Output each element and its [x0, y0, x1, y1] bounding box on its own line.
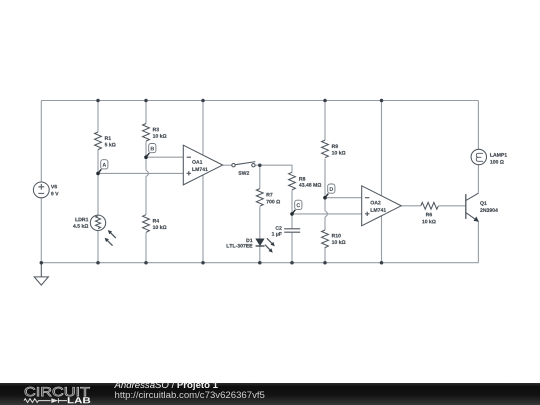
junction bottom rail / R4 — [144, 261, 148, 265]
junction bottom rail / LDR1 — [96, 261, 100, 265]
resistor R3 — [143, 124, 150, 142]
CircuitLab logo — [0, 383, 110, 405]
wire junction down to R7 — [259, 165, 261, 188]
wire R8 to node C — [291, 190, 293, 214]
wire R7 to D1 — [259, 207, 261, 239]
wire node D down to hop — [324, 198, 326, 211]
junction SW2 output / R7 / R8 — [258, 163, 262, 167]
wire LAMP1 top — [477, 101, 479, 150]
wire node C to C2 — [291, 214, 293, 228]
resistor R6 — [421, 202, 439, 209]
label Q1 part — [480, 208, 498, 212]
wire LAMP1 to Q1 collector — [477, 165, 479, 193]
op-amp OA2 — [362, 186, 402, 226]
junction top rail / OA1 supply wire — [201, 99, 205, 103]
wire R1 to node A — [97, 150, 99, 174]
label R8 value — [299, 183, 321, 187]
label LAMP1 name — [490, 153, 507, 157]
wire junction to R8 corner — [260, 165, 292, 172]
wire vertical through OA2 — [381, 101, 383, 263]
label V6 value — [51, 192, 58, 196]
wire LDR1 to bottom rail — [97, 231, 99, 263]
wire bottom rail — [41, 262, 478, 264]
footer bar — [0, 383, 540, 405]
resistor R9 — [322, 140, 329, 158]
wire OA1 output to SW2 — [223, 164, 232, 166]
wire D1 to bottom rail — [259, 246, 261, 263]
wire R3 to node B — [145, 142, 147, 158]
wire R10 to bottom rail — [324, 247, 326, 263]
junction bottom rail / R10 — [323, 261, 327, 265]
node D — [323, 184, 335, 200]
wire R4 to bottom rail — [145, 233, 147, 263]
resistor R8 — [289, 172, 296, 190]
wire node B down to hop — [145, 157, 147, 170]
wire R1 branch top — [97, 101, 99, 133]
junction top rail / R3 — [144, 99, 148, 103]
label OA2 part — [371, 208, 386, 212]
junction bottom rail / OA1 supply wire — [201, 261, 205, 265]
label LDR1 name — [75, 218, 88, 222]
junction top rail / R1 — [96, 99, 100, 103]
label LDR1 value — [73, 224, 88, 228]
label SW2 — [238, 171, 249, 175]
wire SW2 to junction — [255, 164, 260, 166]
node B — [144, 144, 156, 160]
junction bottom rail / C2 — [290, 261, 294, 265]
wire hop over node D wire — [325, 211, 328, 217]
wire hop to R4 — [145, 176, 147, 214]
wire node A to OA1 plus input — [98, 172, 183, 174]
label C2 name — [276, 226, 282, 230]
resistor R4 — [143, 215, 150, 233]
label R9 name — [332, 144, 338, 148]
wire node C to OA2 plus input — [292, 213, 362, 215]
photoresistor LDR1 — [90, 215, 116, 246]
label R10 name — [332, 234, 341, 238]
junction bottom rail / D1 — [258, 261, 262, 265]
LED D1 — [256, 238, 275, 252]
label Q1 name — [480, 201, 487, 206]
node A — [96, 160, 108, 176]
wire node B to OA1 minus input — [146, 156, 183, 158]
wire Q1 emitter to bottom rail — [477, 221, 479, 262]
switch SW2 — [232, 162, 256, 167]
label R3 value — [153, 134, 167, 138]
voltage source V6 — [33, 182, 49, 198]
label R8 name — [299, 177, 305, 181]
wire hop over node A wire — [146, 170, 149, 176]
wire R9 to node D — [324, 159, 326, 198]
label R1 name — [105, 136, 111, 140]
label R4 name — [153, 219, 159, 223]
resistor R10 — [322, 230, 329, 248]
label R6 name — [426, 213, 432, 217]
label V6 name — [51, 185, 57, 189]
op-amp OA1 — [183, 145, 222, 185]
label OA1 part — [192, 168, 207, 172]
wire left V6 branch upper — [40, 101, 42, 183]
wire R3 branch top — [145, 101, 147, 124]
label R7 value — [266, 200, 280, 204]
label R10 value — [332, 240, 346, 244]
label OA2 name — [371, 201, 381, 205]
ground — [34, 263, 48, 285]
wire R9 branch top — [324, 101, 326, 141]
label LAMP1 value — [490, 160, 504, 164]
label R3 name — [153, 128, 159, 132]
label R7 name — [267, 193, 273, 197]
wire hop bottom to R10 — [324, 217, 326, 230]
label D1 part — [227, 244, 253, 248]
lamp LAMP1 — [471, 149, 486, 164]
capacitor C2 — [284, 229, 300, 232]
label C2 value — [272, 232, 282, 237]
label R4 value — [153, 225, 167, 229]
wire R6 to Q1 base — [439, 205, 466, 207]
wire node A to LDR1 — [97, 173, 99, 215]
junction bottom rail / ground — [40, 261, 44, 265]
node C — [290, 200, 302, 216]
label OA1 name — [192, 160, 202, 164]
junction top rail / OA2 supply wire — [380, 99, 384, 103]
wire vertical through OA1 — [202, 101, 204, 263]
label D1 name — [246, 239, 252, 243]
wire OA2 output to R6 — [401, 205, 421, 207]
resistor R1 — [95, 132, 102, 150]
transistor Q1 — [466, 193, 479, 222]
wire C2 to bottom rail — [291, 233, 293, 263]
wire top rail — [41, 100, 478, 102]
resistor R7 — [256, 189, 263, 207]
wire left V6 branch lower — [40, 198, 42, 263]
junction bottom rail / OA2 supply wire — [380, 261, 384, 265]
label R9 value — [332, 151, 346, 155]
label R6 value — [422, 220, 436, 224]
label R1 value — [105, 143, 116, 147]
junction top rail / R9 — [323, 99, 327, 103]
wire node D to OA2 minus input — [325, 197, 362, 199]
